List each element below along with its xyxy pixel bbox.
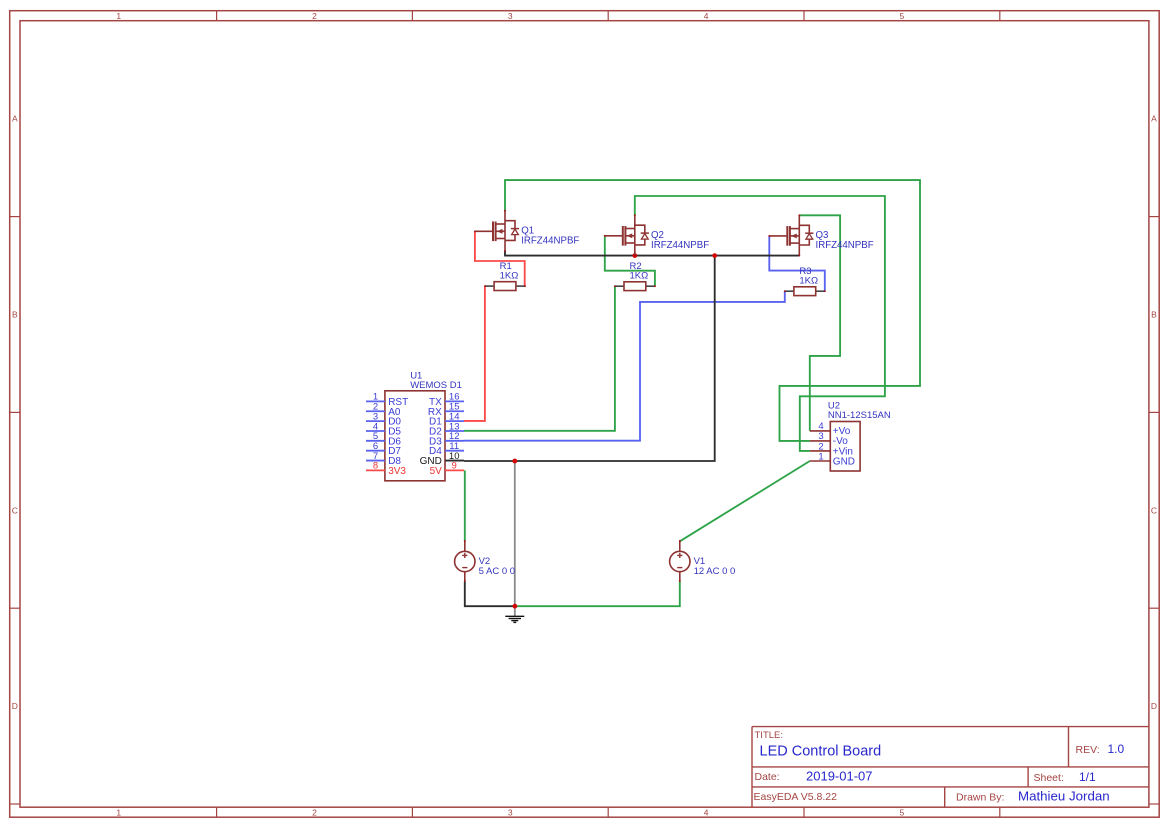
svg-text:A: A xyxy=(12,114,18,124)
svg-text:B: B xyxy=(1151,310,1157,320)
svg-text:3V3: 3V3 xyxy=(388,466,406,477)
svg-text:5V: 5V xyxy=(430,466,443,477)
svg-text:4: 4 xyxy=(704,807,709,817)
svg-text:B: B xyxy=(12,310,18,320)
svg-text:2: 2 xyxy=(312,807,317,817)
svg-text:WEMOS D1: WEMOS D1 xyxy=(410,380,462,391)
svg-text:9: 9 xyxy=(452,461,457,472)
svg-text:A: A xyxy=(1151,114,1157,124)
svg-text:1KΩ: 1KΩ xyxy=(799,275,818,286)
svg-text:TITLE:: TITLE: xyxy=(755,730,784,741)
svg-text:1KΩ: 1KΩ xyxy=(500,270,519,281)
svg-text:1: 1 xyxy=(116,11,121,21)
svg-text:D: D xyxy=(1151,701,1157,711)
svg-text:C: C xyxy=(12,505,18,515)
svg-text:NN1-12S15AN: NN1-12S15AN xyxy=(828,410,891,421)
svg-text:1KΩ: 1KΩ xyxy=(630,270,649,281)
svg-text:IRFZ44NPBF: IRFZ44NPBF xyxy=(651,240,709,251)
svg-text:12 AC 0 0: 12 AC 0 0 xyxy=(694,566,736,577)
svg-text:3: 3 xyxy=(508,807,513,817)
svg-text:3: 3 xyxy=(508,11,513,21)
svg-text:5 AC 0 0: 5 AC 0 0 xyxy=(479,566,515,577)
svg-text:LED Control Board: LED Control Board xyxy=(760,744,882,760)
svg-text:4: 4 xyxy=(704,11,709,21)
svg-text:IRFZ44NPBF: IRFZ44NPBF xyxy=(521,236,579,247)
svg-text:IRFZ44NPBF: IRFZ44NPBF xyxy=(816,240,874,251)
svg-text:Sheet:: Sheet: xyxy=(1034,772,1064,784)
svg-text:2019-01-07: 2019-01-07 xyxy=(806,769,873,784)
svg-text:Drawn By:: Drawn By: xyxy=(956,792,1004,804)
svg-text:1: 1 xyxy=(116,807,121,817)
svg-text:EasyEDA V5.8.22: EasyEDA V5.8.22 xyxy=(754,791,838,803)
svg-text:GND: GND xyxy=(833,456,855,467)
svg-text:5: 5 xyxy=(900,11,905,21)
svg-text:8: 8 xyxy=(373,461,378,472)
svg-text:Mathieu Jordan: Mathieu Jordan xyxy=(1018,789,1110,804)
svg-text:2: 2 xyxy=(312,11,317,21)
svg-text:1/1: 1/1 xyxy=(1079,770,1096,784)
svg-text:1.0: 1.0 xyxy=(1108,742,1125,756)
svg-text:REV:: REV: xyxy=(1076,744,1100,756)
svg-text:D: D xyxy=(12,701,18,711)
svg-text:C: C xyxy=(1151,505,1157,515)
svg-text:1: 1 xyxy=(818,451,823,462)
svg-text:Date:: Date: xyxy=(755,771,780,783)
svg-text:5: 5 xyxy=(900,807,905,817)
